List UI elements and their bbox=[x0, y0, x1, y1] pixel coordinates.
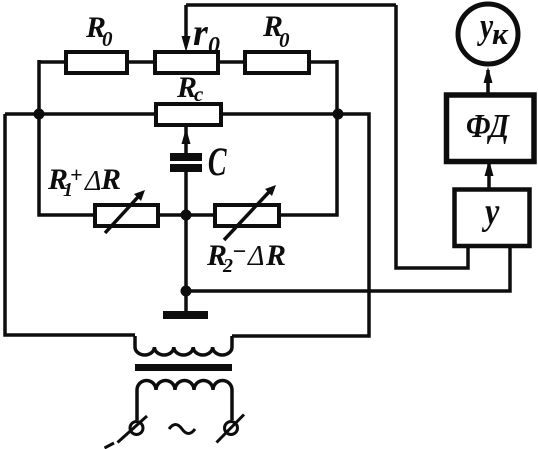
terminal left bbox=[105, 416, 148, 448]
wire cap branch lower bbox=[184, 172, 188, 215]
capacitor C bbox=[170, 153, 202, 172]
resistor R0 left bbox=[66, 52, 127, 73]
ground bbox=[163, 311, 208, 319]
label Uk bbox=[476, 6, 509, 51]
wire row3 middle bbox=[158, 213, 215, 217]
wire row1 left bbox=[39, 60, 66, 64]
svg-text:r: r bbox=[193, 12, 209, 54]
svg-text:Δ: Δ bbox=[247, 241, 264, 272]
wire right bus bbox=[279, 60, 337, 215]
transformer core bbox=[135, 364, 232, 371]
resistor Rc bbox=[156, 104, 221, 125]
wire left bus bbox=[39, 60, 95, 215]
label R0 left bbox=[85, 11, 113, 51]
label U bbox=[481, 191, 499, 233]
transformer secondary winding bbox=[137, 381, 232, 421]
svg-text:к: к bbox=[492, 16, 509, 51]
arrow R1 variable bbox=[105, 190, 145, 233]
label R0 right bbox=[262, 10, 290, 52]
svg-text:ФД: ФД bbox=[466, 107, 510, 145]
svg-text:+: + bbox=[70, 162, 83, 187]
resistor R1 bbox=[95, 205, 158, 226]
resistor R2 bbox=[215, 205, 279, 226]
svg-text:c: c bbox=[194, 82, 204, 106]
wire row1 between r0 and R0 bbox=[218, 60, 245, 64]
wire top feedback bbox=[186, 3, 396, 7]
label R2-dR bbox=[206, 239, 286, 277]
label R1+dR bbox=[47, 162, 121, 201]
junction node center row3 bbox=[181, 210, 192, 221]
wire cap branch upper bbox=[184, 125, 188, 154]
junction node output bbox=[181, 286, 192, 297]
wire bridge to transformer bbox=[232, 114, 369, 336]
arrowhead r0 wiper bbox=[182, 36, 191, 52]
wire mid left to Rc bbox=[5, 112, 156, 116]
AC source tilde bbox=[169, 425, 195, 434]
wire ground stem bbox=[184, 291, 188, 312]
svg-text:0: 0 bbox=[279, 28, 290, 52]
phase detector FD box bbox=[447, 95, 535, 162]
potentiometer r0 bbox=[155, 52, 218, 73]
wire row1 right bbox=[309, 60, 337, 64]
wire output bbox=[186, 245, 510, 291]
svg-text:R: R bbox=[265, 239, 286, 272]
label r0 bbox=[193, 12, 220, 59]
svg-text:0: 0 bbox=[208, 33, 220, 59]
arrow FD to Uk bbox=[484, 67, 493, 96]
label C bbox=[208, 140, 227, 184]
wire center vertical bbox=[184, 215, 188, 291]
wire Rc right bbox=[221, 112, 338, 116]
transformer primary winding bbox=[135, 336, 232, 355]
indicator Uk circle bbox=[458, 4, 518, 64]
amplifier U box bbox=[455, 190, 530, 247]
svg-text:C: C bbox=[208, 140, 227, 184]
wire right feedback vertical bbox=[396, 5, 468, 268]
svg-text:R: R bbox=[100, 163, 121, 196]
arrow R2 variable bbox=[224, 185, 276, 240]
terminal right bbox=[217, 415, 245, 443]
wire row1 between R0 and r0 bbox=[127, 60, 155, 64]
label FD bbox=[466, 107, 510, 145]
svg-text:0: 0 bbox=[102, 27, 113, 51]
arrowhead Rc tap bbox=[182, 128, 191, 144]
svg-text:−: − bbox=[232, 239, 247, 265]
junction node left bus bbox=[34, 109, 45, 120]
resistor R0 right bbox=[245, 52, 309, 73]
wire wiper drop bbox=[184, 5, 188, 40]
label Rc bbox=[176, 71, 204, 106]
junction node right bus bbox=[333, 109, 344, 120]
arrow U to FD bbox=[485, 160, 494, 188]
svg-text:Δ: Δ bbox=[84, 166, 101, 197]
wire far-left bus bbox=[5, 114, 135, 335]
